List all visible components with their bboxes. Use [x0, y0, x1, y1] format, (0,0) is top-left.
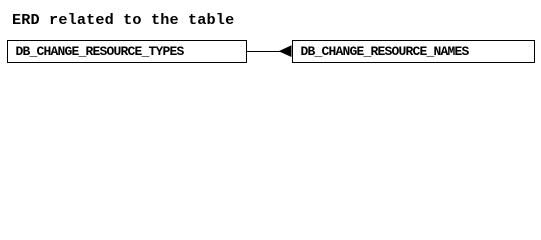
title: ERD related to the table	[12, 14, 234, 27]
wire: relationship line between the two entity boxes	[247, 51, 281, 52]
entity box DB_CHANGE_RESOURCE_TYPES	[7, 40, 247, 63]
arrowhead: filled triangle pointing left at DB_CHANGE_RESOURCE_NAMES	[278, 45, 292, 58]
entity box DB_CHANGE_RESOURCE_NAMES	[292, 40, 535, 63]
label DB_CHANGE_RESOURCE_NAMES	[301, 45, 469, 58]
label DB_CHANGE_RESOURCE_TYPES	[16, 45, 184, 58]
